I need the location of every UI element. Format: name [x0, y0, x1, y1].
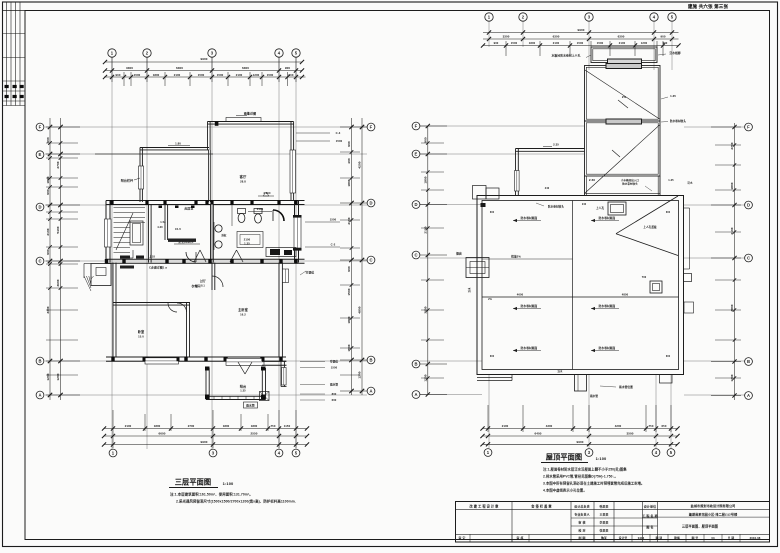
- svg-text:3300: 3300: [46, 306, 50, 313]
- svg-text:雨蓬详图: 雨蓬详图: [244, 111, 256, 116]
- svg-text:C: C: [747, 255, 750, 260]
- level mark living: [263, 192, 269, 196]
- svg-text:1.35: 1.35: [670, 94, 676, 98]
- svg-text:2700: 2700: [56, 161, 60, 168]
- svg-text:1500: 1500: [511, 41, 518, 45]
- svg-text:2100: 2100: [553, 41, 560, 45]
- svg-text:改 建 工 程 设 计 章: 改 建 工 程 设 计 章: [470, 503, 500, 508]
- svg-text:4200: 4200: [358, 161, 362, 168]
- svg-text:2.60: 2.60: [589, 178, 595, 182]
- svg-text:2700: 2700: [188, 424, 195, 428]
- svg-text:设计单位: 设计单位: [644, 503, 656, 508]
- svg-text:16.2: 16.2: [240, 313, 246, 317]
- bottom door V: [238, 362, 245, 374]
- svg-text:800: 800: [332, 392, 337, 396]
- terrace rail ticks: [213, 396, 215, 399]
- tower middle window: [606, 119, 642, 124]
- svg-text:王某某: 王某某: [600, 512, 609, 517]
- corner blob: [481, 203, 486, 207]
- svg-text:900: 900: [663, 41, 668, 45]
- svg-text:3300: 3300: [503, 35, 510, 39]
- svg-text:设计号: 设计号: [619, 536, 628, 540]
- svg-text:1150: 1150: [284, 424, 291, 428]
- svg-text:1500: 1500: [577, 41, 584, 45]
- svg-text:2%: 2%: [622, 95, 627, 99]
- stair treads upper run: [130, 207, 145, 209]
- left plan horizontal axis lines: [46, 126, 368, 128]
- bottom-left eaves step: [477, 377, 512, 379]
- rain pipe label box: [244, 402, 258, 408]
- svg-text:雨水管: 雨水管: [330, 383, 339, 387]
- living room corner column: [215, 121, 219, 125]
- svg-text:审 核: 审 核: [517, 535, 524, 540]
- svg-text:2.采光通风预留洞尺寸(1500x1500/2700x120: 2.采光通风预留洞尺寸(1500x1500/2700x1200(宽x高)、防护栏…: [176, 499, 296, 504]
- living room left wall lower: [208, 150, 210, 202]
- living room right window: [290, 150, 296, 193]
- svg-text:1500: 1500: [597, 41, 604, 45]
- svg-text:2100: 2100: [46, 228, 50, 235]
- svg-text:防水卷材屋面: 防水卷材屋面: [521, 304, 538, 308]
- left chimney box: [466, 258, 489, 278]
- svg-text:3300: 3300: [126, 66, 133, 70]
- svg-text:C-3: C-3: [336, 131, 341, 135]
- flue box with X: [260, 392, 270, 401]
- svg-text:防水卷材收头: 防水卷材收头: [548, 205, 564, 209]
- stall divider: [231, 205, 233, 227]
- svg-text:750: 750: [271, 424, 276, 428]
- svg-text:注:1.本层建筑面积:161.50m²、使用面积:131.7: 注:1.本层建筑面积:161.50m²、使用面积:131.70m²。: [170, 492, 253, 497]
- svg-text:2100: 2100: [502, 424, 509, 428]
- window leader dims right: [305, 221, 340, 223]
- wing top wall: [516, 148, 585, 150]
- axis C wall: [106, 258, 305, 260]
- terrace corner blobs: [205, 395, 210, 400]
- svg-text:1.5a: 1.5a: [160, 220, 166, 224]
- stair break line: [116, 213, 133, 250]
- svg-text:阳台栏杆: 阳台栏杆: [121, 178, 133, 183]
- toilet 2: [254, 209, 262, 214]
- roof slope labels: [513, 220, 541, 222]
- svg-text:三层平面图、屋顶平面图: 三层平面图、屋顶平面图: [682, 524, 718, 529]
- svg-text:9900: 9900: [577, 28, 584, 32]
- stair landing marks: [120, 256, 130, 259]
- svg-text:9900: 9900: [200, 440, 207, 444]
- tower upper diagonal: [585, 70, 660, 119]
- svg-text:雨水管: 雨水管: [246, 404, 255, 408]
- svg-text:1.80: 1.80: [175, 142, 181, 146]
- svg-text:2700: 2700: [730, 142, 734, 149]
- right inner box: [650, 281, 662, 293]
- svg-text:专业负责人: 专业负责人: [574, 512, 590, 517]
- bedroom1 left wall: [112, 263, 114, 357]
- svg-text:D: D: [369, 200, 372, 205]
- right plan right dimension line: [734, 123, 736, 400]
- svg-text:A: A: [38, 392, 41, 397]
- right plan top axis bubbles: [485, 13, 493, 21]
- svg-text:240: 240: [545, 187, 550, 190]
- interior wall x165: [164, 205, 166, 241]
- svg-text:1200: 1200: [46, 373, 50, 380]
- svg-text:找坳2%: 找坳2%: [511, 255, 521, 259]
- svg-text:水箱间防水卷材上人孔: 水箱间防水卷材上人孔: [551, 54, 581, 58]
- left plan bottom axis bubbles: [109, 449, 117, 457]
- svg-text:4300: 4300: [546, 424, 553, 428]
- svg-text:2100: 2100: [236, 73, 243, 77]
- main roof outer edge: [477, 196, 684, 375]
- svg-text:6600: 6600: [158, 432, 165, 436]
- svg-text:防水卷材屋面: 防水卷材屋面: [599, 346, 616, 350]
- water tank inner rect: [608, 59, 642, 66]
- svg-text:1500: 1500: [134, 73, 141, 77]
- bedroom2 right wall: [278, 263, 280, 357]
- bottom row cells: [469, 534, 471, 542]
- svg-text:1800: 1800: [730, 182, 734, 189]
- svg-text:3600: 3600: [424, 306, 428, 313]
- svg-text:D: D: [747, 202, 750, 207]
- svg-text:3600: 3600: [56, 279, 60, 286]
- svg-text:泛水: 泛水: [467, 287, 471, 292]
- svg-text:陶某: 陶某: [601, 536, 607, 540]
- svg-text:4.本图中虚线表示小孔位置。: 4.本图中虚线表示小孔位置。: [543, 488, 587, 493]
- svg-text:2100: 2100: [424, 226, 428, 233]
- wing left wall: [515, 149, 517, 196]
- svg-text:图 别: 图 别: [656, 536, 663, 540]
- svg-text:900: 900: [424, 137, 428, 143]
- binding strip column: [24, 11, 26, 540]
- title block header row line: [456, 509, 770, 511]
- svg-text:建施 共六张 第三张: 建施 共六张 第三张: [687, 3, 729, 10]
- svg-text:1200: 1200: [358, 371, 362, 378]
- svg-text:日 期: 日 期: [728, 536, 735, 540]
- svg-text:4.30: 4.30: [157, 225, 163, 229]
- bath wall x211: [211, 205, 214, 263]
- svg-text:600: 600: [490, 355, 495, 358]
- svg-text:建湖县某花园小区-排二层(1)2号楼: 建湖县某花园小区-排二层(1)2号楼: [689, 512, 738, 517]
- svg-text:2100: 2100: [619, 41, 626, 45]
- door arc bath right: [273, 210, 284, 221]
- svg-text:空调位: 空调位: [306, 271, 315, 275]
- svg-text:注:1.屋面卷材防水层泛水沿屋面上翻不小于250(见)图集: 注:1.屋面卷材防水层泛水沿屋面上翻不小于250(见)图集: [543, 467, 627, 472]
- svg-text:1200: 1200: [641, 41, 648, 45]
- svg-text:2.900: 2.900: [264, 191, 271, 195]
- svg-text:审 核: 审 核: [578, 520, 585, 525]
- svg-text:图 号: 图 号: [692, 536, 699, 540]
- svg-text:5400: 5400: [56, 226, 60, 233]
- door arc hall: [186, 252, 196, 262]
- svg-text:03: 03: [711, 536, 715, 540]
- svg-text:F: F: [415, 123, 418, 128]
- right plan left axis bubbles: [412, 122, 420, 130]
- left plan left dimension lines: [49, 118, 51, 400]
- svg-text:600: 600: [490, 211, 495, 214]
- svg-text:F: F: [39, 124, 42, 129]
- hall underline texts: [168, 239, 196, 242]
- toilet 1: [238, 209, 246, 214]
- balcony left wall: [139, 148, 141, 203]
- left plan left axis bubbles: [36, 123, 44, 131]
- title block bottom row line: [456, 533, 770, 535]
- balcony top wall: [140, 147, 209, 149]
- bottom band window end blobs: [143, 357, 146, 361]
- svg-text:F: F: [370, 124, 373, 129]
- bottom window 2: [226, 358, 264, 365]
- bedroom divider wall x187: [186, 303, 188, 357]
- svg-text:4200: 4200: [615, 424, 622, 428]
- svg-text:A: A: [747, 393, 750, 398]
- svg-text:张某某: 张某某: [600, 528, 609, 533]
- svg-text:600: 600: [666, 355, 671, 358]
- svg-text:A: A: [414, 392, 417, 397]
- svg-text:工 程 名 称: 工 程 名 称: [642, 513, 657, 518]
- right exterior wall middle band: [294, 201, 296, 263]
- door V hall mid: [230, 250, 237, 262]
- title block sub rows: [571, 517, 658, 519]
- svg-text:2.35: 2.35: [553, 143, 559, 147]
- right lower window: [282, 368, 287, 386]
- svg-text:1.35: 1.35: [244, 242, 250, 246]
- svg-text:1800: 1800: [154, 424, 161, 428]
- bedroom divider door: [177, 303, 187, 312]
- stair treads left flight: [114, 207, 131, 209]
- svg-text:15.0: 15.0: [138, 335, 144, 339]
- living room interior dim: [248, 211, 272, 213]
- columns on axis B wall: [111, 357, 114, 362]
- svg-text:盐城市规划市政设计院有限公司: 盐城市规划市政设计院有限公司: [691, 503, 736, 508]
- bottom bump pipe chase: [575, 375, 587, 392]
- lower right bottom wall: [262, 360, 287, 362]
- svg-text:2100: 2100: [244, 238, 251, 242]
- left plan top axis bubbles: [108, 49, 116, 57]
- top wall door frame blobs: [159, 206, 163, 209]
- right outlet box: [684, 302, 694, 313]
- strip row dividers: [3, 33, 26, 35]
- svg-text:4800: 4800: [358, 306, 362, 313]
- svg-text:E: E: [415, 151, 418, 156]
- svg-text:1800: 1800: [347, 316, 351, 323]
- svg-text:3500: 3500: [626, 432, 633, 436]
- svg-text:9900: 9900: [200, 57, 207, 61]
- svg-text:2100: 2100: [125, 424, 132, 428]
- svg-text:防水卷材收头: 防水卷材收头: [670, 119, 686, 123]
- svg-text:设计总负责: 设计总负责: [574, 503, 590, 508]
- svg-text:0416: 0416: [638, 536, 645, 540]
- svg-text:E: E: [39, 152, 42, 157]
- svg-text:1500: 1500: [267, 73, 274, 77]
- svg-text:1.35: 1.35: [668, 178, 674, 182]
- roof ridge vertical: [572, 201, 574, 370]
- svg-text:1500: 1500: [198, 73, 205, 77]
- svg-text:起居室: 起居室: [184, 206, 194, 211]
- svg-text:1:100: 1:100: [223, 481, 234, 486]
- svg-text:6400: 6400: [534, 432, 541, 436]
- svg-text:2400: 2400: [257, 207, 264, 211]
- svg-text:校 对: 校 对: [578, 528, 585, 533]
- svg-text:1500: 1500: [217, 73, 224, 77]
- top-right triangle dormer: [616, 196, 678, 234]
- svg-text:1500: 1500: [330, 218, 337, 222]
- bottom window 1: [145, 358, 179, 364]
- closet wall y303: [113, 302, 190, 304]
- svg-text:衣帽间: 衣帽间: [191, 283, 200, 288]
- svg-text:1800: 1800: [46, 176, 50, 183]
- columns on axis C: [105, 259, 108, 264]
- svg-text:650: 650: [662, 424, 667, 428]
- svg-text:1500: 1500: [347, 288, 351, 295]
- title block outer: [456, 502, 770, 543]
- svg-text:1800: 1800: [424, 176, 428, 183]
- svg-text:主卧室: 主卧室: [238, 307, 249, 312]
- svg-text:D: D: [38, 204, 41, 209]
- svg-text:浴缸: 浴缸: [221, 233, 227, 237]
- svg-text:900: 900: [46, 249, 50, 255]
- left plan bottom dimension lines: [104, 428, 307, 430]
- svg-text:烟囱: 烟囱: [456, 252, 462, 256]
- svg-text:1800: 1800: [251, 424, 258, 428]
- left plan vertical axis lines: [111, 58, 113, 450]
- svg-text:B: B: [369, 357, 372, 362]
- svg-text:2100: 2100: [347, 217, 351, 224]
- svg-text:建施: 建施: [673, 536, 680, 540]
- svg-text:C-2: C-2: [331, 243, 336, 247]
- hall wall x214 upper segment: [211, 263, 213, 291]
- tower corner extension lines: [590, 41, 592, 47]
- bottom right bump: [660, 375, 673, 384]
- water tank bump top: [591, 47, 657, 63]
- svg-text:李某某: 李某某: [599, 520, 609, 525]
- svg-text:900: 900: [116, 73, 121, 77]
- right lower extension wall: [280, 361, 282, 387]
- svg-text:900: 900: [660, 35, 665, 39]
- title block verticals: [511, 502, 513, 543]
- basin circles: [215, 225, 222, 232]
- svg-text:1800: 1800: [347, 179, 351, 186]
- right plan right axis bubbles: [745, 123, 753, 131]
- small stair arrow: [120, 257, 133, 259]
- svg-text:空调位: 空调位: [330, 360, 339, 364]
- svg-text:韩某某: 韩某某: [600, 503, 609, 508]
- svg-text:600: 600: [666, 211, 671, 214]
- svg-text:2550: 2550: [250, 432, 257, 436]
- svg-text:防水卷材屋面: 防水卷材屋面: [521, 216, 538, 220]
- svg-text:1800: 1800: [223, 424, 230, 428]
- svg-text:D: D: [414, 202, 417, 207]
- balcony left window: [139, 166, 144, 189]
- svg-text:防水卷材屋面: 防水卷材屋面: [521, 346, 538, 350]
- svg-text:上人孔: 上人孔: [596, 206, 605, 210]
- right plan horizontal axis stubs right: [684, 126, 745, 128]
- living window leaders: [296, 132, 330, 134]
- svg-text:防水卷材收头: 防水卷材收头: [622, 182, 638, 186]
- svg-text:阳台: 阳台: [240, 384, 246, 389]
- svg-text:防水卷材屋面: 防水卷材屋面: [599, 304, 616, 308]
- right plan horizontal axis stubs left: [420, 125, 584, 127]
- tower base continuation walls: [584, 176, 586, 196]
- svg-text:A: A: [369, 388, 372, 393]
- svg-text:1800: 1800: [529, 41, 536, 45]
- bedroom2 right window: [283, 269, 289, 283]
- closet door arc: [168, 303, 177, 312]
- svg-text:900: 900: [46, 189, 50, 195]
- living room left wall upper: [207, 122, 209, 151]
- svg-text:3800: 3800: [730, 304, 734, 311]
- svg-text:2004.08: 2004.08: [750, 536, 761, 540]
- washer/appliance block: [270, 249, 280, 255]
- svg-text:客厅: 客厅: [239, 174, 247, 179]
- svg-text:6300: 6300: [553, 35, 560, 39]
- svg-text:900: 900: [347, 141, 351, 147]
- svg-text:审 定: 审 定: [459, 535, 466, 540]
- svg-text:雨水管位置: 雨水管位置: [619, 385, 633, 389]
- right wall window: [294, 217, 301, 248]
- svg-text:C: C: [38, 258, 41, 263]
- svg-text:雨水管: 雨水管: [590, 394, 598, 398]
- svg-text:1200: 1200: [424, 374, 428, 381]
- svg-text:上18: 上18: [149, 255, 155, 259]
- right side leader notes: [300, 361, 325, 363]
- tower upper window: [606, 64, 642, 69]
- svg-text:1500: 1500: [347, 344, 351, 351]
- svg-text:小水箱间出入口: 小水箱间出入口: [620, 178, 640, 182]
- axis E dark segment: [95, 153, 213, 155]
- svg-text:三层平面图: 三层平面图: [175, 478, 211, 487]
- svg-text:屋顶平面图: 屋顶平面图: [546, 453, 582, 462]
- svg-text:防水卷材屋面: 防水卷材屋面: [599, 216, 616, 220]
- svg-text:6300: 6300: [618, 35, 625, 39]
- svg-text:2.排水管采用PVC管,管径见图集D(75H)-1.750↓: 2.排水管采用PVC管,管径见图集D(75H)-1.750↓。: [543, 474, 618, 479]
- door V hall left: [194, 250, 200, 262]
- tower middle room: [585, 121, 661, 176]
- left plan right dimension lines: [351, 118, 353, 395]
- tub: [237, 232, 263, 248]
- corridor door arc: [212, 276, 223, 287]
- svg-text:1500: 1500: [336, 139, 343, 143]
- stair right wall: [148, 205, 150, 263]
- svg-text:4600: 4600: [517, 293, 524, 297]
- right plan bottom dimension lines: [483, 428, 678, 430]
- tower middle diagonal: [585, 125, 660, 193]
- terrace right wall: [261, 368, 263, 400]
- porch bottom-left steps: [91, 264, 111, 286]
- svg-text:C走廊详图1 a: C走廊详图1 a: [149, 266, 167, 270]
- columns on axis D wall: [110, 200, 113, 205]
- right plan top dimension lines: [483, 32, 679, 34]
- svg-text:240: 240: [582, 203, 587, 206]
- svg-text:C1.5: C1.5: [175, 227, 181, 231]
- svg-text:图 名: 图 名: [646, 524, 653, 529]
- tower upper room: [585, 66, 661, 122]
- stair center rail: [130, 221, 143, 245]
- svg-text:2100: 2100: [730, 227, 734, 234]
- main wall on axis D: [106, 200, 305, 202]
- svg-text:1.35: 1.35: [240, 389, 246, 393]
- svg-text:1800: 1800: [153, 73, 160, 77]
- svg-text:900: 900: [347, 266, 351, 272]
- svg-text:4800: 4800: [622, 293, 629, 297]
- living room top wall: [208, 121, 294, 123]
- svg-text:泛水: 泛水: [558, 369, 563, 373]
- svg-text:700: 700: [642, 276, 647, 279]
- svg-text:上人孔盖板: 上人孔盖板: [643, 225, 657, 229]
- svg-text:900: 900: [46, 137, 50, 143]
- svg-text:1200: 1200: [56, 373, 60, 380]
- left exterior wall of middle band: [105, 201, 107, 263]
- svg-text:6300: 6300: [242, 66, 249, 70]
- svg-text:1:100: 1:100: [596, 456, 607, 461]
- wing window: [515, 171, 520, 192]
- svg-text:3.本图中所有预留孔洞必须在土建施工时预埋套管完成后施工封堵: 3.本图中所有预留孔洞必须在土建施工时预埋套管完成后施工封堵。: [543, 481, 644, 486]
- svg-text:6300: 6300: [176, 66, 183, 70]
- svg-text:1200: 1200: [730, 374, 734, 381]
